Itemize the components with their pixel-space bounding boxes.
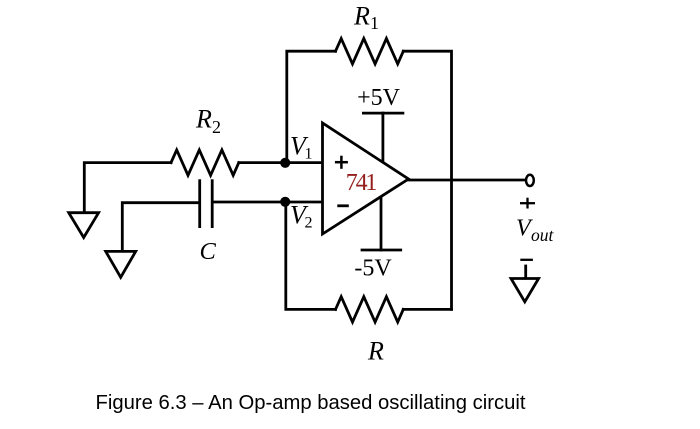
wire bottom-right horizontal — [403, 308, 451, 311]
svg-text:R: R — [353, 2, 370, 31]
resistor R1 — [336, 39, 404, 64]
svg-text:C: C — [200, 238, 217, 265]
svg-text:-5V: -5V — [354, 256, 392, 282]
svg-text:Figure 6.3 – An Op-amp based o: Figure 6.3 – An Op-amp based oscillating… — [96, 392, 526, 414]
ground 2 (C input) — [106, 251, 136, 277]
+5V supply bar — [363, 112, 403, 115]
svg-text:1: 1 — [305, 146, 313, 163]
svg-text:+5V: +5V — [357, 85, 401, 111]
node V2 junction dot — [280, 197, 290, 207]
output terminal circle — [526, 175, 534, 186]
wire top-right to right vertical — [403, 51, 451, 309]
svg-text:R: R — [367, 337, 384, 366]
wire top-left vertical (V1 node to R1 loop) — [287, 51, 336, 163]
wire bottom-left horizontal and vertical to V2 node — [286, 202, 336, 310]
Vout + polarity marking — [520, 198, 535, 209]
svg-text:1: 1 — [370, 13, 379, 33]
resistor R2 — [171, 150, 239, 175]
Vout - polarity marking — [520, 259, 533, 261]
-5V supply lead — [380, 199, 383, 251]
wire R2 to op-amp noninverting input (V1 node) — [239, 161, 323, 164]
op-amp - input marking — [337, 204, 349, 207]
svg-text:2: 2 — [305, 215, 313, 232]
op-amp U1 741 triangle — [323, 123, 409, 234]
ground 1 (R2 input) — [69, 213, 99, 238]
wire op-amp output — [409, 179, 525, 182]
wire C input left segment with vertical to ground 2 — [122, 203, 198, 251]
Vout ground lead — [524, 266, 527, 278]
wire C to op-amp inverting input (V2 node) — [214, 201, 323, 204]
resistor R — [336, 297, 404, 322]
op-amp + input marking — [335, 156, 348, 169]
-5V supply bar — [362, 249, 401, 252]
svg-text:741: 741 — [346, 170, 377, 196]
capacitor C left plate — [198, 181, 201, 227]
node V1 junction dot — [280, 158, 290, 168]
ground 3 (Vout) — [511, 279, 539, 302]
svg-text:out: out — [531, 225, 555, 245]
+5V supply lead — [381, 113, 384, 161]
wire R2 input left segment with vertical to ground 1 — [84, 163, 171, 212]
svg-text:R: R — [195, 105, 212, 134]
capacitor C right plate — [211, 181, 214, 227]
svg-text:2: 2 — [212, 117, 221, 137]
